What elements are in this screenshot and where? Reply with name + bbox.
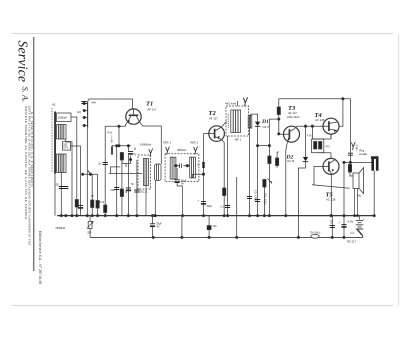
bias tap down to divider [118,126,120,146]
wire coil 502 to switch [71,146,81,174]
svg-text:MF. 1: MF. 1 [235,138,242,142]
capacitor 2 [63,187,68,189]
IF2 primary winding [231,110,241,133]
P.U. arrow [111,136,113,143]
fuse resistor on supply bus [310,232,321,239]
svg-text:GPL: GPL [63,147,68,150]
D1 output wire [258,146,270,216]
svg-text:AF 117: AF 117 [148,108,157,112]
T2 collector to IF2 [222,122,227,128]
coil unit 502 GPL [63,142,71,151]
wire to output transformer [350,161,371,163]
svg-text:S. A.: S. A. [21,87,31,103]
svg-text:A1: A1 [52,103,56,107]
svg-text:T1: T1 [146,101,153,108]
rail corner down [349,99,351,163]
svg-text:724 (39Ω): 724 (39Ω) [310,232,321,235]
on/off switch [359,228,361,231]
svg-text:≈550kΩ: ≈550kΩ [55,226,66,230]
osc coupling winding [155,164,162,181]
volume pot line [263,179,265,216]
driver feed junction [311,125,313,127]
output coupling resistor [349,162,351,164]
AGC feed to D1 node [269,119,278,146]
svg-text:AF 117: AF 117 [288,111,297,115]
capacitor on 116 line [114,188,119,190]
elec cap on 344 [341,225,346,228]
T2 emitter to bus with resistor [222,140,224,216]
svg-text:R. C. SEINE 55 B 11.004 -: R. C. SEINE 55 B 11.004 - S. E. P. PARIS… [30,112,34,187]
T1 collector lead down [105,122,128,126]
feedback diagonal [312,185,349,189]
svg-text:4,5V: 4,5V [348,220,354,224]
svg-text:150: 150 [55,184,60,187]
main ground bus [57,215,375,217]
ferrite antenna rod [54,112,56,174]
link 181.9 between buses [181,216,183,238]
svg-text:470: 470 [326,146,331,149]
svg-text:150kpF: 150kpF [58,116,67,120]
elec cap at 209 [207,216,217,238]
line 128 to bus [127,155,129,216]
elec cap 50uF at T2 base [201,202,206,205]
svg-text:Edition Service S.A. - N° 287: Edition Service S.A. - N° 287 04-69 [38,231,42,284]
T5 base feed [314,166,323,184]
page bottom edge [12,305,393,307]
svg-text:9V: 9V [157,226,160,229]
output transformer [371,156,379,215]
bias resistor lower [276,152,278,158]
svg-text:AC 125: AC 125 [315,118,325,122]
driver bias network [307,134,331,158]
wire L3 bottom to bus [60,173,62,216]
svg-text:220: 220 [111,189,116,192]
IF2 stub up [237,101,239,106]
wire IF1 secondary to T2 base [193,134,209,216]
svg-text:100: 100 [213,225,218,228]
svg-text:GO: GO [77,110,81,114]
IF2 secondary winding [248,116,252,129]
svg-text:RG 217: RG 217 [347,240,356,244]
pot wiper arrow [268,179,273,184]
line 136.9 to bus [136,160,138,216]
trimmer REP1 [166,147,170,155]
resistor on T2 base line [202,162,204,168]
wire osc coil bottom down to bus [86,128,88,216]
IF2 trimmer [243,97,247,106]
switch arrow [88,171,91,175]
volume return line [236,177,238,237]
svg-text:9V: 9V [181,183,184,186]
secondary top wire to D1 [250,114,258,121]
antenna trimmer cap [81,102,86,104]
page top edge [12,33,393,35]
transistor T1 [126,109,141,124]
svg-text:D1: D1 [261,119,269,125]
junction tone [349,161,351,163]
diode D1 [255,122,260,146]
T3 collector to T4 base [295,126,323,129]
svg-text:100: 100 [329,220,332,225]
base bias network under T1 [109,145,142,174]
coupling winding to bus [154,181,156,216]
svg-text:AC 128: AC 128 [326,198,336,202]
IF1 internal tuning cap [175,163,190,168]
svg-text:4,7k: 4,7k [307,135,312,138]
osc box to bus [146,186,155,216]
supply bus (negative rail) [90,236,363,238]
resistor on 76.8 [75,200,78,208]
cap on 128 line [126,188,131,191]
IF2 core arrow [227,114,229,128]
oscillator coil tapped bracket [84,102,87,128]
cap at 227 line [227,136,229,216]
IF1 primary winding [170,157,176,179]
osc primary winding [143,159,148,186]
IF1 secondary winding [190,157,196,178]
switch contact dots [82,173,84,175]
detector line to bus [257,146,259,216]
wire to decoupling [344,162,350,237]
tap dots [83,102,85,104]
transistor T2 [209,126,225,142]
PU jack between buses [87,216,94,238]
tone capacitor [348,153,353,155]
svg-text:VOL. 10kΩ: VOL. 10kΩ [263,193,266,205]
loudspeaker [353,168,364,198]
oscillator transformer dashed box [138,155,151,189]
cap 332 between buses [331,216,333,238]
resistor on 122 line [121,161,123,216]
antenna GO winding L3 [57,154,66,173]
elec cap 50uF [176,168,178,180]
elec cap 50uF to supply bus [150,216,163,238]
svg-text:250: 250 [87,232,92,235]
svg-text:1450kHz: 1450kHz [140,143,152,147]
supply bus dots [152,236,345,238]
masthead rule [33,37,35,271]
svg-text:P.U.: P.U. [108,131,114,135]
T1 emitter lead to osc transformer [140,122,162,164]
tone trimmer [351,142,355,150]
svg-text:8,2k: 8,2k [100,201,105,204]
T4 collector to rail [339,99,343,126]
cap on detector line [255,200,260,202]
top wire coil to T1 [88,99,133,109]
AGC rail with bias resistor [278,99,280,107]
svg-text:455kHz: 455kHz [177,148,187,152]
elec cap on 80 line [80,174,82,211]
svg-text:tonalité: tonalité [359,153,368,156]
wire L2 tap to bus [66,139,72,216]
AGC line down [104,126,106,215]
bus junction dots [60,214,375,216]
svg-text:OA 79: OA 79 [287,159,295,163]
wire rod bottom to bus [54,174,56,216]
antenna coupling winding L1 [57,113,71,122]
second pole line [91,174,93,215]
IF transformer 1 dashed box [165,154,199,182]
wire L1 to bus [71,117,77,216]
svg-text:AF 117: AF 117 [209,117,218,121]
antenna MA winding L2 [57,125,66,140]
svg-text:1,5kΩ 20mA: 1,5kΩ 20mA [287,116,301,119]
pot resistor [263,180,266,188]
secondary bottom to bus [249,128,251,216]
T5 emitter to bus [330,174,332,216]
svg-text:REP. 1: REP. 1 [164,142,172,145]
diode D2 [305,126,307,157]
transistor T4 [323,118,339,134]
svg-text:50µF: 50µF [207,205,213,208]
page right edge [398,34,400,306]
volume cap on 249 line [247,197,252,199]
T4 emitter down [330,134,332,139]
svg-text:Int.: Int. [351,231,355,235]
IF transformer 2 dashed box [226,106,249,136]
supply top rail [279,98,351,100]
T3 base wire [279,133,284,135]
band switch MA/GO [83,174,98,215]
speaker return wires [355,188,358,215]
svg-text:Service: Service [16,41,31,83]
capacitor 150pF [59,187,64,189]
transistor T5 [323,158,339,174]
svg-text:MA.: MA. [92,101,98,105]
svg-text:REP. 2: REP. 2 [191,142,199,145]
T3 emitter to bus [286,141,288,215]
trimmer REP2 [194,147,198,155]
emitter resistor chain to bus [116,146,118,216]
svg-text:OSC. 1: OSC. 1 [139,190,148,194]
D1 load resistor [268,156,271,164]
svg-text:461 kHz: 461 kHz [225,101,237,105]
battery 9V [348,216,365,229]
capacitor 5nF on AGC line [103,163,108,165]
svg-text:0,1µF: 0,1µF [355,145,358,152]
resistor on switch return [96,201,99,209]
trimmer glyph [149,149,153,157]
antenna lead dashed [51,108,53,172]
transistor T3 [284,126,300,142]
